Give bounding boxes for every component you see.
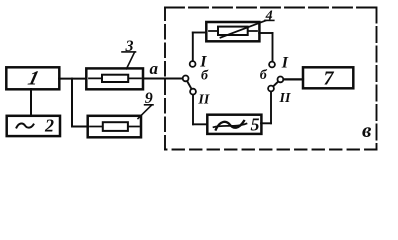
wire S2 common to block7 [280,78,303,80]
wire S2 contact I up to block4 right [259,33,272,63]
switch S1 arm (б to II) [186,78,193,91]
S1 labels I б II [197,54,209,108]
switch S2 contact circles [268,62,283,92]
svg-text:а: а [150,59,159,78]
svg-text:б: б [201,68,209,83]
dashed enclosure в [165,8,377,150]
block 5 AC source [207,114,261,134]
block 9 resistor [88,116,141,138]
node a [150,59,159,78]
svg-text:7: 7 [324,68,335,90]
svg-text:в: в [362,118,372,142]
label 9 with leader [138,90,153,119]
block 7 indicator [303,67,353,89]
wire junction down to block9 [72,79,88,127]
switch S1 contact circles [183,61,196,94]
S2 labels I б II [260,55,291,107]
wire block1 to block2 [30,89,32,116]
wire block3 to node a to switch S1 [143,78,184,80]
svg-text:б: б [260,68,268,83]
wire S2 contact II down to block5 right [261,89,271,124]
switch S2 arm (б to II) [271,79,280,88]
wire S1 contact II down to block5 left [193,92,208,125]
svg-text:2: 2 [44,115,54,135]
svg-text:I: I [281,55,289,72]
label 4 [265,8,274,23]
block 1 [6,67,59,89]
svg-text:5: 5 [251,114,260,134]
wire block1 to junction to block3 [59,78,87,80]
block 2 AC source [7,115,60,136]
svg-text:II: II [197,92,209,107]
label в (figure part) [362,118,372,142]
block 3 resistor [86,68,143,89]
block 4 variable resistor [206,21,265,42]
wire S1 contact I up to block4 left [193,33,207,64]
label 3 with leader [122,38,136,69]
svg-text:II: II [279,91,291,106]
